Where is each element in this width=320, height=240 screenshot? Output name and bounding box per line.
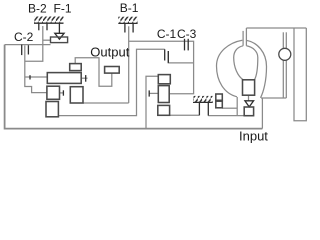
svg-text:C-1: C-1 xyxy=(157,27,177,41)
svg-text:C-2: C-2 xyxy=(14,30,34,44)
svg-text:Output: Output xyxy=(90,44,129,59)
svg-text:F-1: F-1 xyxy=(54,1,72,15)
svg-text:B-2: B-2 xyxy=(28,1,47,15)
svg-text:C-3: C-3 xyxy=(177,27,197,41)
svg-text:Input: Input xyxy=(239,129,268,144)
svg-text:B-1: B-1 xyxy=(120,1,139,15)
